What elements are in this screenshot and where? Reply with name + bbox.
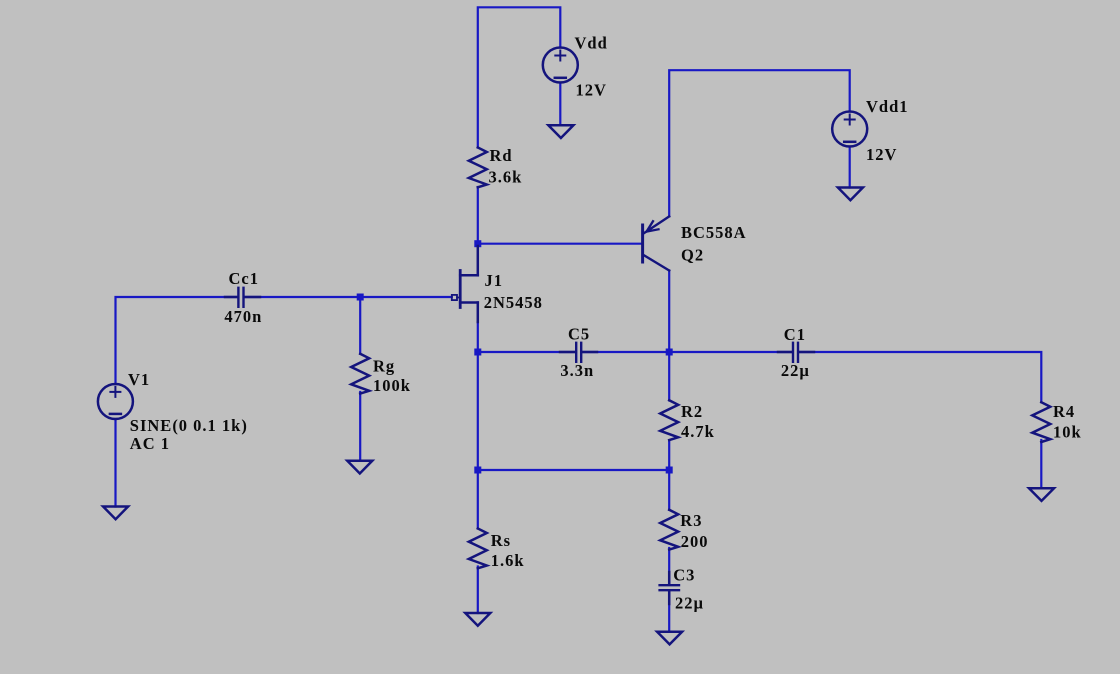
wire Rs bottom to ground bbox=[477, 567, 479, 614]
capacitor C1 leads bbox=[778, 351, 792, 354]
svg-text:22µ: 22µ bbox=[675, 593, 704, 612]
svg-text:Rd: Rd bbox=[490, 146, 513, 165]
resistor Rg bbox=[351, 354, 369, 394]
junction dots bbox=[357, 240, 673, 473]
jfet J1 bbox=[452, 246, 478, 322]
svg-text:3.6k: 3.6k bbox=[489, 167, 523, 186]
capacitor Cc1 leads bbox=[225, 296, 237, 299]
wire J1 column C5 row to bottom row bbox=[477, 352, 479, 470]
resistor Rs bbox=[469, 529, 487, 569]
wire bottom row horizontal bbox=[478, 469, 669, 471]
resistor R2 bbox=[660, 400, 678, 440]
wire Rg bottom to ground bbox=[359, 392, 361, 461]
wire gate row Cc1 right to J1 gate bbox=[245, 296, 452, 298]
svg-text:J1: J1 bbox=[485, 271, 504, 290]
wire C5 row left segment bbox=[478, 351, 576, 353]
svg-text:Cc1: Cc1 bbox=[229, 269, 260, 288]
capacitor C3 plates bbox=[660, 584, 679, 586]
wire R2 top bbox=[668, 352, 670, 400]
svg-text:Vdd1: Vdd1 bbox=[866, 97, 909, 116]
svg-text:BC558A: BC558A bbox=[681, 223, 747, 242]
wire top row Rd to Vdd bbox=[478, 7, 561, 147]
node bottom row right junction bbox=[666, 467, 673, 474]
resistor R4 bbox=[1032, 402, 1050, 442]
wire gate row V1 to Cc1 left bbox=[116, 297, 238, 384]
svg-text:Rg: Rg bbox=[373, 356, 395, 375]
wire C1 row left segment bbox=[669, 351, 793, 353]
ground Rg bbox=[347, 461, 372, 474]
wire C1 row right to R4 bbox=[799, 352, 1042, 402]
svg-text:R3: R3 bbox=[680, 511, 702, 530]
wire C3 bottom to ground bbox=[668, 592, 670, 632]
svg-text:C3: C3 bbox=[673, 566, 695, 585]
resistor R3 bbox=[660, 510, 678, 550]
transistor Q2 bbox=[643, 216, 670, 270]
capacitor C5 leads bbox=[560, 351, 575, 354]
wire Rg top bbox=[359, 297, 361, 354]
node bottom row left junction bbox=[474, 467, 481, 474]
svg-text:Rs: Rs bbox=[491, 531, 511, 550]
voltage source V1 bbox=[98, 384, 133, 419]
wire C5 row right segment bbox=[581, 351, 669, 353]
capacitor Cc1 plates bbox=[237, 288, 239, 307]
node source/C5 junction bbox=[474, 349, 481, 356]
svg-text:1.6k: 1.6k bbox=[491, 551, 525, 570]
svg-text:2N5458: 2N5458 bbox=[484, 293, 543, 312]
svg-text:V1: V1 bbox=[128, 370, 150, 389]
wire R2 bottom to bottom row bbox=[668, 442, 670, 471]
svg-text:R4: R4 bbox=[1053, 402, 1075, 421]
ground Rs bbox=[465, 613, 490, 626]
wire V1 bottom to ground bbox=[114, 419, 116, 507]
svg-text:Vdd: Vdd bbox=[575, 34, 608, 53]
resistor Rd bbox=[469, 148, 487, 188]
wire Rd bottom to drain junction bbox=[477, 187, 479, 244]
svg-text:12V: 12V bbox=[866, 145, 897, 164]
wire R3 bottom to C3 bbox=[668, 548, 670, 584]
wire bottom row to Rs bbox=[477, 470, 479, 529]
wire Vdd1 bottom to ground bbox=[849, 147, 851, 188]
capacitor C3 leads bbox=[668, 572, 671, 584]
wire R3 top bbox=[668, 470, 670, 510]
wire Q2 emitter to top row to Vdd1 bbox=[669, 70, 850, 216]
wire Vdd bottom to ground bbox=[559, 83, 561, 126]
svg-text:R2: R2 bbox=[681, 402, 703, 421]
svg-text:4.7k: 4.7k bbox=[681, 422, 715, 441]
svg-text:200: 200 bbox=[681, 532, 709, 551]
svg-text:C1: C1 bbox=[784, 325, 806, 344]
svg-text:12V: 12V bbox=[576, 80, 607, 99]
capacitor C1 plates bbox=[792, 343, 794, 362]
node gate/Rg junction bbox=[357, 294, 364, 301]
node drain/base junction bbox=[474, 240, 481, 247]
svg-text:470n: 470n bbox=[224, 307, 262, 326]
voltage source Vdd bbox=[543, 48, 578, 83]
wire base row J1 drain to Q2 base bbox=[478, 243, 642, 245]
node collector/C5/C1 junction bbox=[666, 349, 673, 356]
voltage source Vdd1 bbox=[832, 112, 867, 147]
svg-text:C5: C5 bbox=[568, 325, 590, 344]
ground Vdd1 bbox=[838, 188, 863, 201]
svg-text:22µ: 22µ bbox=[781, 361, 810, 380]
ground V1 bbox=[103, 507, 128, 520]
svg-text:Q2: Q2 bbox=[681, 246, 704, 265]
svg-text:3.3n: 3.3n bbox=[560, 361, 594, 380]
ground C3 bbox=[657, 632, 682, 645]
svg-text:10k: 10k bbox=[1053, 422, 1082, 441]
capacitor C5 plates bbox=[575, 343, 577, 362]
ground R4 bbox=[1029, 488, 1054, 501]
svg-text:SINE(0 0.1 1k): SINE(0 0.1 1k) bbox=[130, 416, 248, 435]
wire J1 source to C5 row bbox=[477, 322, 479, 352]
wire Q2 collector to C5 row bbox=[668, 271, 670, 353]
ground Vdd bbox=[548, 125, 573, 138]
svg-text:AC 1: AC 1 bbox=[130, 434, 170, 453]
wire R4 bottom to ground bbox=[1040, 440, 1042, 488]
svg-text:100k: 100k bbox=[373, 376, 411, 395]
